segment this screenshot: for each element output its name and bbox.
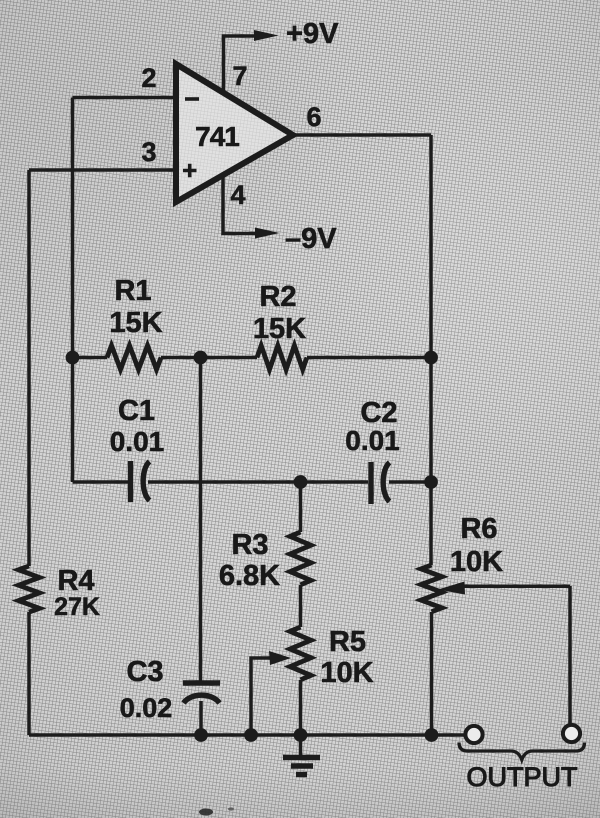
wire R6 wiper to right output terminal: [462, 585, 570, 589]
wire C3 bottom to bottom rail: [199, 701, 203, 735]
capacitor C3 0.02: [183, 683, 220, 703]
svg-text:R2: R2: [259, 281, 296, 313]
output terminal left: [465, 726, 482, 743]
svg-text:0.01: 0.01: [345, 425, 400, 456]
ink speck artifact: [199, 809, 213, 816]
wire C1-C2 rail: [73, 480, 432, 484]
wire middle column (R1R2 node down to C3): [199, 358, 203, 682]
svg-text:7: 7: [232, 61, 247, 91]
ground stub: [299, 735, 303, 755]
wire R1-R2 rail: [73, 356, 432, 360]
svg-text:6: 6: [306, 102, 321, 132]
junction node R5 wiper bottom: [244, 728, 258, 742]
svg-text:0.01: 0.01: [110, 426, 165, 457]
svg-text:6.8K: 6.8K: [219, 560, 280, 592]
resistor R4 27K: [19, 566, 40, 612]
potentiometer R5 10K body: [290, 627, 311, 680]
svg-text:R1: R1: [114, 275, 151, 307]
svg-text:3: 3: [141, 137, 156, 167]
potentiometer R5 wiper arrowhead: [269, 651, 291, 665]
svg-text:R3: R3: [231, 529, 268, 561]
svg-text:C3: C3: [126, 656, 163, 688]
junction node C3 bottom: [194, 728, 208, 742]
svg-text:–9V: –9V: [285, 223, 337, 255]
wire R5 wiper riser: [251, 658, 273, 735]
svg-text:741: 741: [195, 121, 239, 152]
svg-text:4: 4: [230, 180, 245, 210]
svg-text:+9V: +9V: [286, 18, 339, 50]
junction node R1-R2: [194, 351, 208, 365]
wire R3 column top: [299, 482, 303, 532]
svg-text:27K: 27K: [54, 593, 100, 621]
resistor R1 15K: [107, 346, 161, 370]
resistor R2 15K: [257, 346, 307, 370]
capacitor C2 0.01: [371, 462, 390, 504]
wire right column (pin6 down to R6 top): [429, 135, 433, 565]
svg-text:10K: 10K: [320, 657, 373, 689]
wire pin7: [224, 36, 257, 94]
wire right output riser: [568, 586, 572, 726]
potentiometer R6 wiper arrowhead: [438, 582, 465, 595]
svg-text:2: 2: [141, 63, 156, 93]
svg-text:R6: R6: [460, 513, 497, 545]
junction node ground: [294, 728, 308, 742]
wire bottom rail: [29, 733, 466, 737]
wire pin6 output: [291, 133, 431, 137]
wire left column B (pin3 node down to R4 top): [27, 170, 31, 566]
wire R6 bottom to bottom rail: [430, 612, 434, 735]
svg-text:0.02: 0.02: [120, 693, 173, 723]
wire pin2 horizontal: [73, 96, 177, 100]
potentiometer R6 10K body: [421, 565, 442, 612]
output terminal right: [563, 725, 580, 742]
capacitor C1 0.01: [131, 461, 150, 502]
resistor R3 6.8K: [290, 532, 311, 585]
junction node C1-C2: [294, 475, 308, 489]
-9V supply arrow: [255, 228, 280, 239]
svg-text:OUTPUT: OUTPUT: [467, 762, 578, 792]
svg-text:C1: C1: [118, 395, 155, 427]
wire R4 bottom to bottom rail: [27, 612, 31, 735]
svg-text:R5: R5: [329, 626, 366, 658]
svg-text:15K: 15K: [109, 307, 162, 339]
junction node R2 right: [424, 351, 438, 365]
output brace: [459, 743, 585, 760]
svg-text:10K: 10K: [450, 546, 503, 578]
+9V supply arrow: [254, 30, 279, 41]
wire pin4: [223, 175, 256, 234]
junction node R6 bottom: [425, 728, 439, 742]
wire pin3 horizontal: [29, 168, 176, 172]
junction node R1 left: [66, 351, 80, 365]
ground symbol: [283, 758, 320, 775]
wire left column A (pin2 node down to C1 wire): [71, 98, 75, 483]
wire R3-R5 link: [299, 585, 303, 627]
junction node C2 right: [424, 475, 438, 489]
op-amp U1 741: [176, 64, 293, 202]
wire R5 bottom to bottom rail: [299, 680, 303, 735]
svg-text:15K: 15K: [253, 313, 306, 345]
